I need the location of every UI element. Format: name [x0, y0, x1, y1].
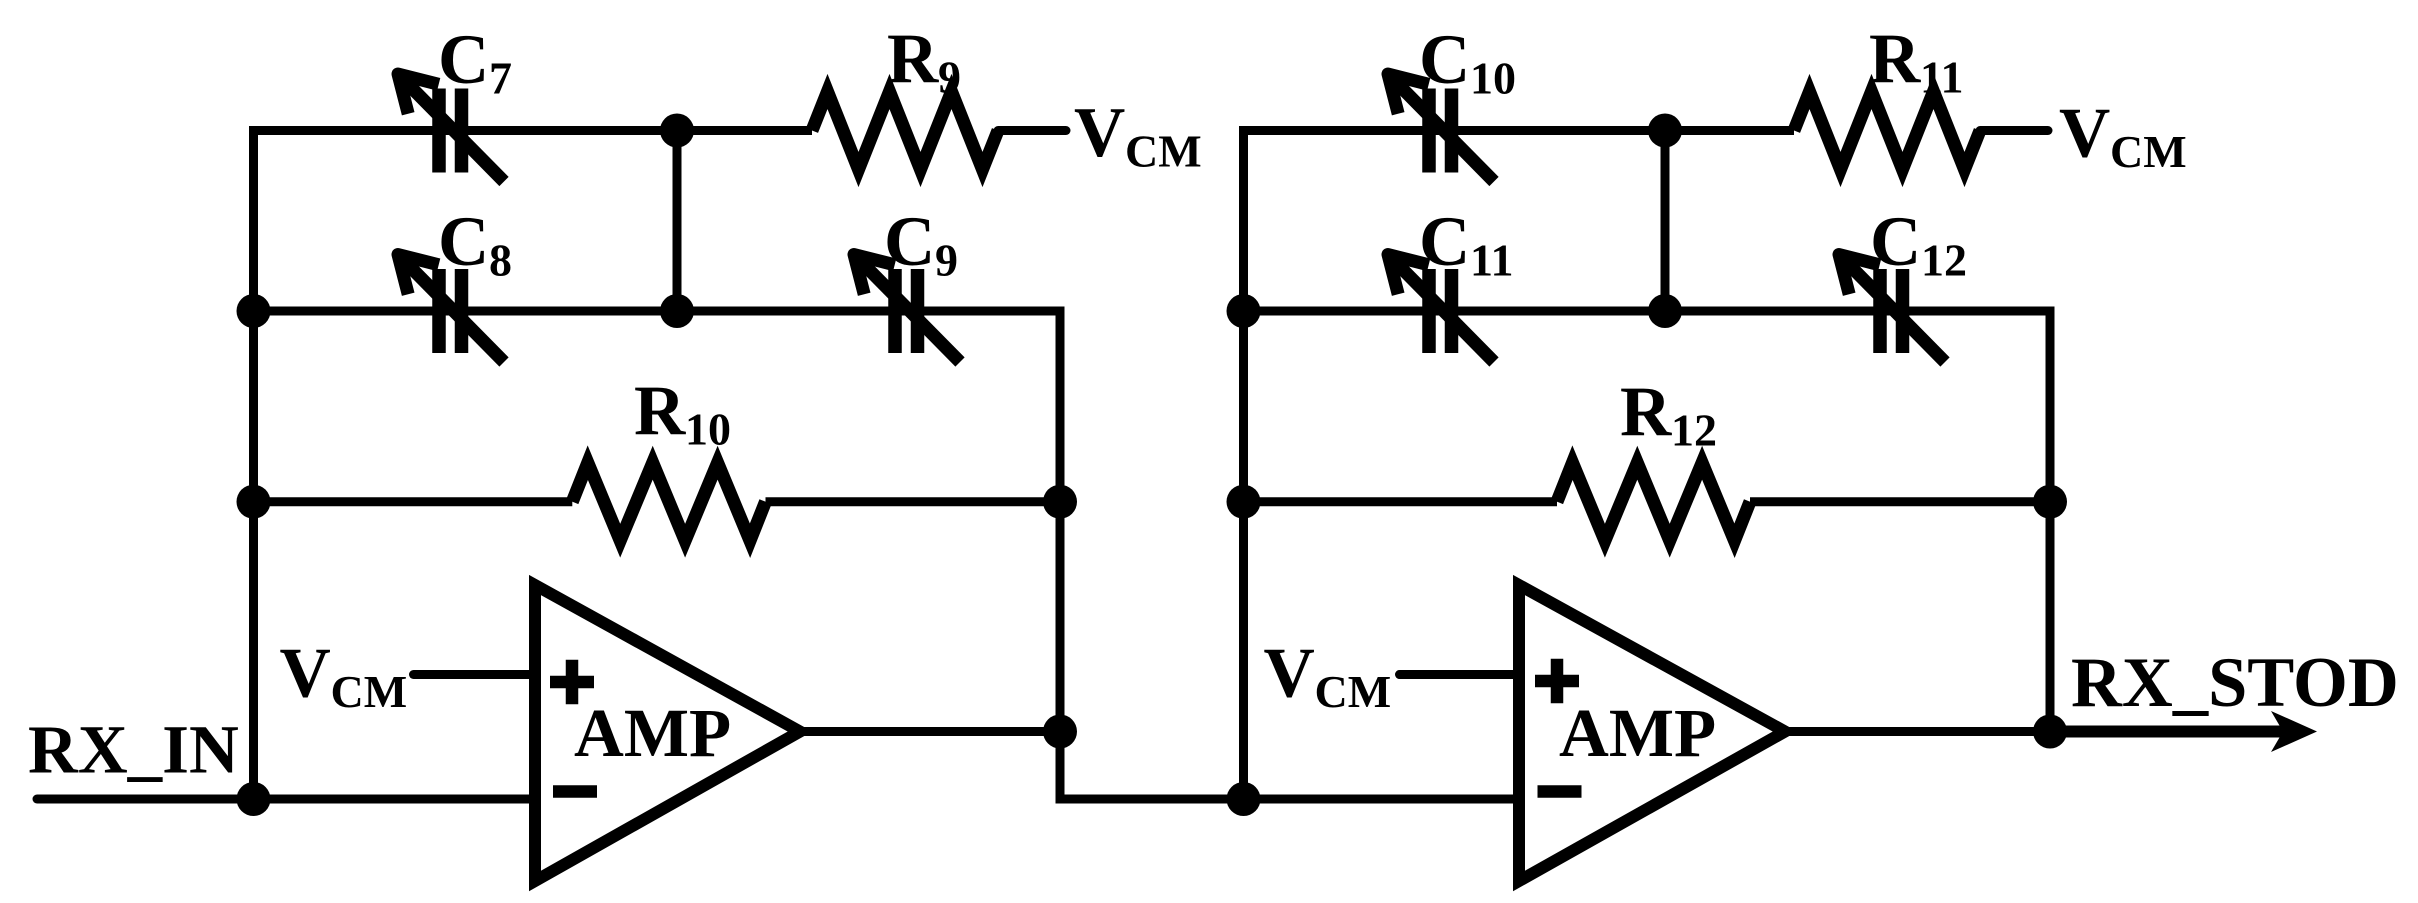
svg-text:C: C: [1870, 203, 1921, 281]
svg-text:C: C: [884, 203, 935, 281]
svg-text:C: C: [1419, 21, 1470, 99]
svg-text:AMP: AMP: [574, 695, 731, 771]
svg-text:11: 11: [1920, 52, 1963, 103]
svg-text:V: V: [2059, 95, 2110, 173]
svg-text:V: V: [1264, 634, 1315, 712]
svg-text:RX_STOD: RX_STOD: [2071, 644, 2399, 722]
svg-text:R: R: [1869, 20, 1921, 98]
svg-text:CM: CM: [2110, 126, 2187, 177]
svg-text:7: 7: [489, 53, 512, 104]
svg-text:R: R: [887, 20, 939, 98]
svg-text:8: 8: [489, 235, 512, 286]
svg-text:10: 10: [685, 404, 731, 455]
svg-text:11: 11: [1470, 235, 1513, 286]
svg-text:R: R: [1620, 373, 1672, 451]
svg-text:9: 9: [938, 52, 961, 103]
svg-text:C: C: [1419, 203, 1470, 281]
svg-text:12: 12: [1671, 405, 1717, 456]
svg-text:9: 9: [935, 235, 958, 286]
svg-text:R: R: [634, 372, 686, 450]
svg-text:V: V: [1074, 94, 1125, 172]
svg-text:C: C: [438, 21, 489, 99]
svg-text:AMP: AMP: [1559, 695, 1716, 771]
svg-text:V: V: [280, 634, 331, 712]
svg-text:10: 10: [1470, 53, 1516, 104]
svg-text:CM: CM: [1315, 666, 1392, 717]
svg-text:CM: CM: [1125, 126, 1202, 177]
svg-text:12: 12: [1921, 235, 1967, 286]
svg-text:RX_IN: RX_IN: [28, 712, 239, 788]
svg-text:C: C: [438, 203, 489, 281]
svg-text:CM: CM: [331, 666, 408, 717]
